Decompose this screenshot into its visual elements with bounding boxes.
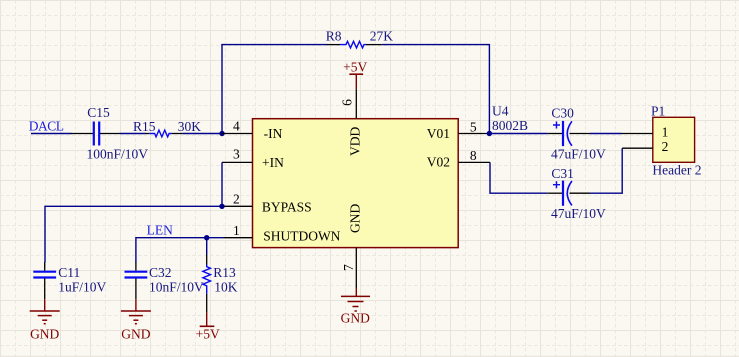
svg-text:GND: GND [121, 326, 150, 341]
svg-text:2: 2 [233, 191, 240, 206]
pin 7 GND [341, 204, 362, 288]
capacitor C31 polarized [547, 166, 606, 221]
svg-text:47uF/10V: 47uF/10V [551, 206, 606, 221]
svg-text:C31: C31 [551, 166, 574, 181]
ground symbol pin7 [341, 288, 370, 326]
node junction pin4 [219, 131, 224, 136]
pin 2 BYPASS [222, 191, 312, 214]
wire R15 to pin4 junction [183, 133, 222, 135]
pin 1 of P1 [622, 125, 669, 140]
wire pin5 to C30 [489, 133, 547, 135]
ground symbol C11 [30, 299, 60, 341]
svg-text:+5V: +5V [196, 327, 220, 342]
resistor R8 27K [326, 28, 394, 47]
capacitor C15 [71, 105, 148, 161]
pin 8 V02 [427, 148, 490, 170]
resistor R13 10K [203, 255, 238, 313]
wire LEN to C32 [136, 238, 207, 263]
svg-text:2: 2 [662, 139, 669, 154]
svg-text:R15: R15 [133, 119, 156, 134]
svg-text:27K: 27K [370, 28, 394, 43]
svg-text:R13: R13 [213, 265, 236, 280]
svg-text:5: 5 [470, 120, 477, 135]
wire riser junction to R8 line [221, 45, 223, 134]
wire C15 to R15 [120, 133, 146, 135]
svg-text:V02: V02 [427, 155, 450, 170]
svg-text:6: 6 [339, 99, 354, 106]
wire pin2 to C11 [45, 206, 222, 262]
op-amp U1 main IC U4 8002B body [253, 119, 459, 248]
svg-text:Header 2: Header 2 [652, 163, 701, 178]
svg-text:+5V: +5V [343, 60, 367, 75]
capacitor C11 [33, 262, 106, 299]
svg-text:1: 1 [662, 125, 669, 140]
connector P1 Header 2 [651, 103, 702, 177]
svg-text:DACL: DACL [29, 119, 64, 134]
svg-text:8002B: 8002B [492, 118, 528, 133]
svg-text:GND: GND [341, 311, 370, 326]
pin 2 of P1 [622, 139, 668, 154]
svg-text:C32: C32 [149, 265, 172, 280]
svg-text:3: 3 [233, 147, 240, 162]
svg-text:U4: U4 [492, 104, 509, 119]
wire C31 to P1 pin2 [590, 148, 622, 193]
pin 3 +IN [222, 147, 284, 170]
svg-text:C11: C11 [58, 265, 80, 280]
resistor R15 30K [133, 119, 201, 137]
node junction pin5 [487, 131, 492, 136]
pin 6 VDD [339, 89, 362, 156]
wire pin3 to pin2 junction [221, 162, 223, 206]
pin 4 -IN [222, 119, 283, 141]
svg-text:1: 1 [233, 223, 240, 238]
svg-text:10nF/10V: 10nF/10V [149, 280, 204, 295]
svg-text:GND: GND [30, 326, 59, 341]
svg-text:VDD: VDD [347, 127, 362, 156]
wire C30 to P1 pin1 [590, 133, 622, 135]
svg-text:10K: 10K [214, 280, 238, 295]
wire DACL to C15 [31, 133, 72, 135]
svg-text:100nF/10V: 100nF/10V [87, 147, 149, 162]
svg-text:C15: C15 [87, 105, 110, 120]
svg-text:-IN: -IN [264, 126, 283, 141]
svg-text:+IN: +IN [262, 155, 284, 170]
wire R8 to pin5 riser [382, 45, 490, 134]
power +5V top [343, 60, 367, 90]
svg-text:30K: 30K [178, 119, 202, 134]
svg-text:BYPASS: BYPASS [262, 200, 312, 215]
pin 1 SHUTDOWN [224, 223, 341, 244]
power +5V bottom [196, 312, 220, 341]
ground symbol C32 [121, 299, 151, 341]
svg-text:P1: P1 [651, 103, 665, 118]
capacitor C30 polarized [547, 106, 606, 162]
pin 5 V01 [427, 120, 488, 142]
svg-text:1uF/10V: 1uF/10V [58, 280, 106, 295]
svg-text:47uF/10V: 47uF/10V [551, 147, 606, 162]
svg-text:GND: GND [347, 204, 362, 233]
svg-text:7: 7 [341, 264, 356, 271]
wire pin8 to C31 [490, 162, 547, 193]
capacitor C32 [125, 262, 205, 299]
svg-text:SHUTDOWN: SHUTDOWN [263, 228, 340, 243]
svg-text:V01: V01 [427, 126, 450, 141]
wire pin1 to junction [207, 237, 224, 239]
svg-text:8: 8 [470, 148, 477, 163]
node junction pin2 [219, 204, 224, 209]
svg-text:R8: R8 [326, 28, 342, 43]
node junction pin1 [204, 235, 209, 240]
wire top to R8 [221, 44, 327, 46]
wire junction to R13 [206, 238, 208, 255]
svg-text:4: 4 [233, 119, 240, 134]
svg-text:LEN: LEN [147, 223, 173, 238]
svg-text:C30: C30 [551, 106, 574, 121]
